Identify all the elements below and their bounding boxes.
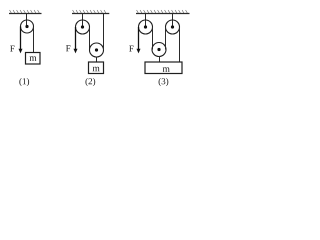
wire: rope from P2 down to movable pulley P3 (89, 27, 91, 50)
pulley 2 hanger wire (82, 14, 84, 28)
pulley P1 axle dot (25, 25, 28, 28)
pulley P3 axle dot (95, 48, 98, 51)
ceiling 2 bar (72, 13, 109, 15)
caption (1) (19, 78, 29, 86)
wire: rope from P4 down to movable pulley P6 (152, 27, 154, 50)
pulley 5 hanger wire (172, 14, 174, 28)
wire: rope right of P1 to mass (33, 27, 35, 53)
wire: rope right of P5 down to mass (179, 27, 181, 62)
pulley P4 axle dot (144, 25, 147, 28)
label F (diagram 3) (129, 46, 133, 52)
wire: rope from movable pulley P6 up to P5 (165, 27, 167, 50)
wire: rope left of P2 (pulled by F) (75, 27, 77, 50)
label F (diagram 2) (66, 45, 70, 51)
ceiling 1 bar (9, 13, 42, 15)
pulley P2 axle dot (81, 25, 84, 28)
pulley P6 axle dot (157, 48, 160, 51)
force F3 arrowhead (137, 49, 141, 54)
movable pulley P3 (90, 43, 104, 57)
pulley 4 hanger wire (145, 14, 147, 28)
label F (diagram 1) (10, 46, 14, 52)
label m (diagram 2) (93, 67, 100, 71)
movable pulley P6 (152, 43, 166, 57)
label m (diagram 1) (29, 56, 36, 60)
fixed pulley P2 (76, 20, 90, 34)
caption (3) (159, 78, 169, 86)
pulley P5 axle dot (171, 25, 174, 28)
wire: rope left of P1 (pulled by F) (20, 27, 22, 51)
mass m box (diagram 2) (89, 62, 104, 74)
wire: link from P6 to mass (159, 56, 161, 62)
mass m box (diagram 1) (26, 53, 41, 65)
wire: rope from movable pulley P3 up to ceiling (103, 14, 105, 51)
fixed pulley P4 (left) (139, 20, 153, 34)
ceiling 3 bar (136, 13, 190, 15)
mass m box (diagram 3) (145, 62, 182, 74)
fixed pulley P1 (21, 20, 34, 33)
pulley 1 hanger wire (26, 14, 28, 27)
ceiling 2 hatching (73, 10, 106, 13)
label m (diagram 3) (163, 67, 170, 71)
caption (2) (85, 78, 95, 86)
force F2 arrowhead (74, 49, 78, 54)
ceiling 1 hatching (10, 10, 40, 13)
fixed pulley P5 (right) (166, 20, 180, 34)
ceiling 3 hatching (137, 10, 188, 13)
wire: rope left of P4 (pulled by F) (138, 27, 140, 50)
wire: link from P3 to mass (96, 57, 98, 63)
force F1 arrowhead (19, 49, 23, 54)
